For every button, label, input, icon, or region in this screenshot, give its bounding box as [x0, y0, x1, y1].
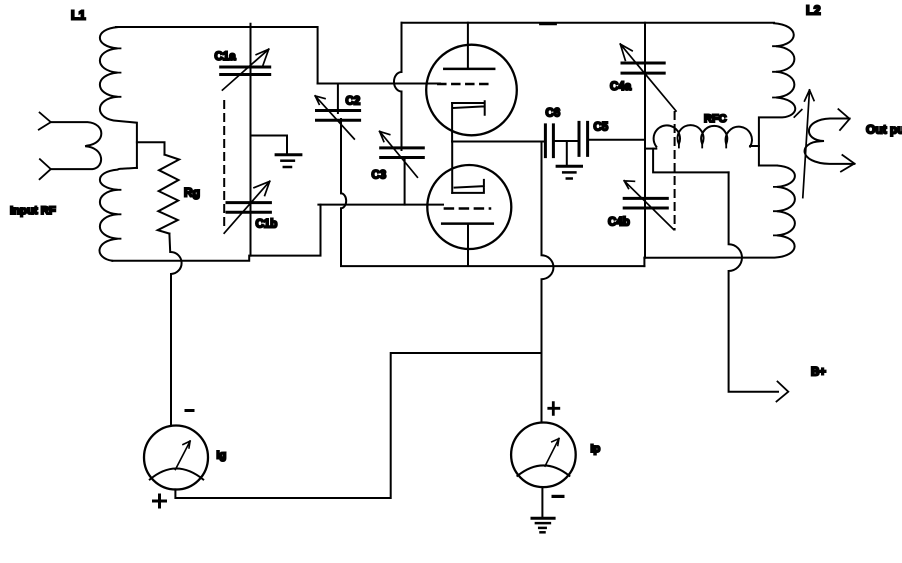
minus sign Ip	[552, 495, 565, 498]
capacitor C1a plates	[221, 67, 270, 75]
ground tap (C6/C5)	[566, 141, 568, 166]
coil L1 lower half	[100, 168, 137, 261]
capacitor C1a arrow	[222, 49, 268, 90]
coil L1 upper half	[100, 27, 137, 168]
wire plate top rail overlap artifact	[540, 23, 556, 25]
capacitor C2 arrow	[315, 96, 354, 139]
capacitor C1b arrow	[224, 181, 270, 233]
wire plate lead V1	[467, 23, 469, 69]
capacitor C6 plates	[545, 125, 553, 157]
ground symbol (Ip)	[532, 517, 554, 520]
svg-text:Ig: Ig	[217, 449, 227, 461]
tube V2 grid (dashed)	[445, 207, 490, 210]
coil L2 notch ticks lower	[774, 187, 777, 236]
capacitor C1b plates	[227, 203, 270, 213]
wire cathode down with hop over plate rail	[542, 142, 554, 423]
coil L1 notch ticks upper	[118, 48, 121, 96]
wire B+ down with hop over L2 bottom wire	[729, 172, 778, 391]
wire neutralizing C3 feed with hop over grid wire	[394, 23, 402, 150]
wire upper grid (to upper tube V1 grid)	[318, 83, 440, 85]
meter Ip circle	[511, 423, 576, 488]
tube V2 cathode	[452, 180, 484, 193]
ground symbol (C6/C5)	[557, 165, 581, 168]
variable coupling arrow through L2	[803, 90, 814, 198]
ground tap at C1	[251, 136, 288, 155]
tube V1 envelope	[426, 45, 517, 136]
ground symbol (C1)	[276, 153, 301, 156]
svg-text:L1: L1	[71, 9, 86, 23]
plus sign Ig	[154, 495, 166, 507]
input feedline fork bottom	[40, 159, 51, 179]
wire B+ feed from RFC junction	[653, 149, 729, 173]
output link arrowhead top	[838, 109, 849, 130]
wire C6 to C5	[553, 140, 579, 142]
wire plate top rail	[402, 22, 775, 24]
output link arrowhead bottom	[841, 155, 854, 172]
tube V1 plate	[444, 68, 494, 71]
coil L2 lower half	[644, 166, 795, 258]
meter Ip needle	[545, 439, 559, 467]
input feedline fork top	[39, 113, 51, 130]
coil L2 notch ticks upper	[773, 46, 776, 97]
wire V2 cathode lead	[451, 142, 453, 193]
wire C2 bottom to plate bottom rail	[341, 119, 644, 266]
resistor Rg	[158, 155, 179, 234]
tube V2 envelope	[427, 165, 511, 249]
meter Ig needle	[175, 441, 190, 469]
input link coil	[51, 122, 102, 169]
wire C2 top lead	[337, 84, 339, 114]
svg-text:L2: L2	[806, 3, 821, 17]
svg-text:RFC: RFC	[704, 113, 727, 125]
capacitor C4a arrow	[620, 44, 676, 111]
svg-text:C4b: C4b	[608, 217, 630, 229]
wire cathode junction to C6	[452, 141, 545, 143]
svg-text:Ip: Ip	[591, 443, 601, 455]
coil L2 upper half	[759, 23, 795, 165]
svg-text:C4a: C4a	[610, 81, 632, 93]
choke RFC	[654, 125, 752, 146]
capacitor C4b arrow	[624, 181, 674, 230]
capacitor C4b plates	[624, 198, 667, 208]
stray arrow fletch stroke	[794, 110, 802, 118]
gang dashed line C1	[223, 101, 225, 226]
capacitor C2 plates	[317, 111, 360, 121]
plus sign Ip	[549, 403, 559, 415]
coil L1 notch ticks lower	[118, 190, 121, 239]
svg-text:C5: C5	[594, 122, 609, 134]
svg-text:C2: C2	[346, 95, 361, 107]
capacitor C4a plates	[622, 63, 664, 73]
arrowhead B+	[777, 382, 789, 402]
wire tank bottom rail	[112, 205, 320, 261]
capacitor C5 plates	[579, 122, 588, 155]
meter Ig circle	[144, 426, 208, 490]
svg-text:Out put: Out put	[866, 123, 902, 137]
svg-text:B+: B+	[811, 367, 826, 379]
svg-text:Input RF: Input RF	[10, 205, 56, 217]
wire C5 to C4 rail	[588, 139, 645, 141]
tube V1 cathode	[452, 101, 485, 115]
capacitor C4 stator line	[644, 23, 646, 258]
tube V1 grid (dashed)	[438, 83, 491, 86]
choke RFC stub	[645, 148, 656, 150]
wire top tank rail (L1 top to upper grid corner)	[116, 27, 318, 84]
svg-text:C3: C3	[372, 169, 387, 181]
svg-text:C1b: C1b	[256, 219, 278, 231]
svg-text:Rg: Rg	[184, 186, 200, 200]
capacitor C3 plates	[381, 148, 424, 158]
resistor Rg tap wire	[137, 142, 165, 154]
tube V2 plate	[442, 222, 493, 225]
gang dashed line C4	[674, 112, 676, 230]
wire C3 bottom lead	[404, 158, 406, 205]
wire Ig bottom out	[175, 353, 541, 498]
svg-text:C6: C6	[546, 108, 561, 120]
wire RFC right to L2 tap	[750, 145, 759, 147]
wire lower grid (to lower tube V2 grid)	[318, 204, 443, 206]
minus sign Ig	[185, 409, 195, 412]
meter Ig scale arc	[150, 469, 203, 480]
choke RFC valley ticks	[679, 144, 726, 148]
wire Ip bottom to ground	[541, 487, 543, 518]
output link coil	[805, 119, 855, 164]
capacitor C3 arrow	[380, 131, 418, 177]
meter Ip scale arc	[517, 465, 569, 475]
wire Rg bottom with hop over tank rail	[169, 234, 181, 426]
wire C1 stator line	[250, 24, 252, 256]
junction step plate rail to L2 bottom	[643, 258, 645, 266]
wire V1 cathode lead	[451, 103, 453, 142]
svg-text:C1a: C1a	[215, 51, 237, 63]
wire V2 plate lead	[467, 224, 469, 266]
